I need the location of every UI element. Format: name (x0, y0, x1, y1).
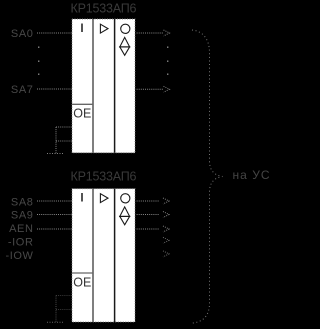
svg-text:КР1533АП6: КР1533АП6 (71, 170, 137, 184)
DD1 qualifier O (121, 24, 130, 33)
svg-text:SA8: SA8 (11, 197, 34, 209)
svg-text:на УС: на УС (233, 168, 270, 182)
wire DD2 OE pin 1 (56, 295, 72, 297)
svg-text:-IOR: -IOR (8, 237, 34, 249)
svg-text:-IOW: -IOW (5, 250, 33, 262)
wire DD2 output AEN (137, 228, 160, 230)
wire DD2 OE pin 2 (56, 309, 72, 311)
wire DD1 OE pin 1 (56, 126, 72, 128)
DD2 qualifier O (121, 194, 130, 203)
arrow DD2 output SA8 (163, 198, 169, 204)
DD1 amplifier triangle (100, 24, 108, 33)
buffer DD1 body (72, 19, 135, 153)
wire DD1 OE to ground (55, 127, 57, 154)
wire SA9 to DD2 (37, 214, 72, 216)
ground DD1 (47, 153, 64, 155)
arrow DD2 output IOW (163, 251, 169, 257)
DD2 tri-state diamond (120, 207, 130, 225)
svg-text:SA7: SA7 (11, 84, 34, 96)
svg-text:SA9: SA9 (11, 210, 34, 222)
wire DD1 OE pin 2 (56, 140, 72, 142)
svg-text:OE: OE (73, 275, 91, 289)
arrow DD1 output top (164, 30, 170, 36)
wire DD2 output SA8 (137, 200, 160, 202)
wire DD2 output SA9 (137, 214, 160, 216)
DD2 amplifier triangle (100, 194, 108, 203)
svg-text:AEN: AEN (9, 223, 33, 235)
wire DD1 output bottom (137, 88, 163, 90)
wire DD1 output top (137, 32, 163, 34)
ellipsis right DD1 (167, 47, 168, 75)
arrow DD1 output bottom (164, 86, 170, 92)
svg-text:КР1533АП6: КР1533АП6 (71, 2, 137, 16)
wire AEN to DD2 (37, 228, 72, 230)
ground DD2 (47, 321, 64, 323)
buffer DD2 body (72, 189, 135, 322)
DD1 qualifier I (81, 24, 83, 33)
wire SA8 to DD2 (37, 200, 72, 202)
wire SA7 to DD1 (37, 88, 72, 90)
ellipsis left DD1 (38, 47, 39, 75)
arrow DD2 output SA9 (163, 212, 169, 218)
DD1 tri-state diamond (120, 37, 130, 55)
arrow DD2 output AEN (163, 226, 169, 232)
svg-text:SA0: SA0 (11, 28, 34, 40)
brace to УС (192, 30, 223, 323)
svg-text:OE: OE (73, 107, 91, 121)
wire DD2 OE to ground (55, 296, 57, 323)
DD2 qualifier I (81, 193, 83, 202)
wire SA0 to DD1 (37, 32, 72, 34)
arrow DD2 output IOR (163, 237, 169, 243)
